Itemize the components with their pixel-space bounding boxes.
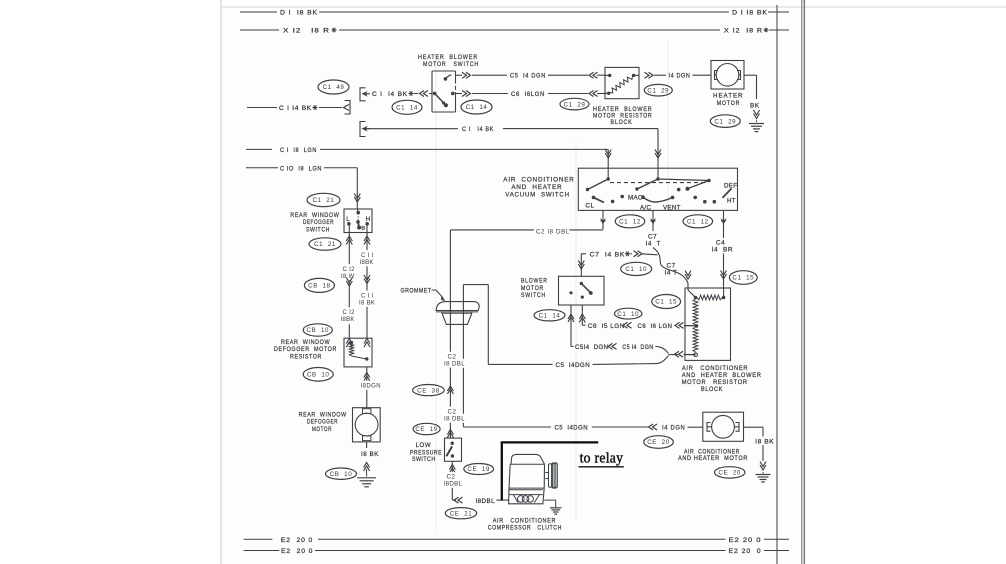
svg-text:C5 I4 DGN: C5 I4 DGN xyxy=(622,344,653,351)
svg-text:C6 I6LGN: C6 I6LGN xyxy=(511,91,545,98)
svg-text:I4 DGN: I4 DGN xyxy=(662,425,685,432)
svg-text:I8DBL: I8DBL xyxy=(444,481,463,488)
svg-text:I4 T: I4 T xyxy=(646,241,661,248)
svg-text:VACUUM SWITCH: VACUUM SWITCH xyxy=(505,192,570,199)
svg-text:C1 12: C1 12 xyxy=(687,219,709,226)
svg-text:DEFOGGER: DEFOGGER xyxy=(303,219,334,226)
svg-text:I8 BK: I8 BK xyxy=(361,451,379,458)
svg-text:E2 20 0: E2 20 0 xyxy=(281,548,313,555)
svg-text:I4 DGN: I4 DGN xyxy=(669,73,691,80)
svg-text:I8BK: I8BK xyxy=(360,260,374,266)
svg-text:SWITCH: SWITCH xyxy=(412,456,436,463)
svg-text:C5 I4 DGN: C5 I4 DGN xyxy=(510,73,546,80)
svg-text:C I I4 BK: C I I4 BK xyxy=(462,126,494,133)
svg-text:C7: C7 xyxy=(648,234,657,241)
svg-text:C1 29: C1 29 xyxy=(564,101,586,108)
svg-text:MOTOR: MOTOR xyxy=(312,426,332,433)
svg-text:C5 I4DGN: C5 I4DGN xyxy=(555,425,589,432)
svg-text:I8BK: I8BK xyxy=(341,317,355,323)
svg-text:I8DGN: I8DGN xyxy=(361,383,382,390)
svg-text:C I I4 BK: C I I4 BK xyxy=(279,105,312,112)
svg-text:CE 20: CE 20 xyxy=(718,470,741,477)
svg-text:AIR CONDITIONER: AIR CONDITIONER xyxy=(493,517,556,524)
svg-text:REAR WINDOW: REAR WINDOW xyxy=(299,412,347,419)
svg-text:C6 I5 LGN: C6 I5 LGN xyxy=(588,323,625,330)
svg-text:H: H xyxy=(366,216,370,223)
svg-text:MOTOR: MOTOR xyxy=(717,100,741,107)
svg-text:CL: CL xyxy=(586,203,595,210)
svg-text:X I2 I8 R: X I2 I8 R xyxy=(724,28,763,35)
svg-text:SWITCH: SWITCH xyxy=(306,226,330,233)
svg-text:VENT: VENT xyxy=(663,205,681,212)
svg-text:CE 19: CE 19 xyxy=(415,426,438,433)
svg-text:L: L xyxy=(346,216,350,223)
svg-text:A/C: A/C xyxy=(640,205,651,212)
svg-text:REAR WINDOW: REAR WINDOW xyxy=(290,212,339,219)
svg-text:C1 29: C1 29 xyxy=(714,118,736,125)
svg-text:E2 20 0: E2 20 0 xyxy=(729,548,762,555)
svg-text:I8 DBL: I8 DBL xyxy=(444,361,465,368)
svg-text:C2: C2 xyxy=(448,354,457,361)
svg-text:C1 14: C1 14 xyxy=(539,313,561,320)
svg-text:AIR CONDITIONER: AIR CONDITIONER xyxy=(503,177,574,184)
svg-text:MOTOR RESISTOR: MOTOR RESISTOR xyxy=(682,379,748,386)
svg-text:C I2: C I2 xyxy=(343,310,356,316)
svg-text:BK: BK xyxy=(750,103,760,110)
svg-text:HT: HT xyxy=(727,198,736,205)
svg-text:BLOWER: BLOWER xyxy=(521,278,548,285)
svg-text:LOW: LOW xyxy=(416,442,432,449)
svg-text:CE 21: CE 21 xyxy=(450,510,473,517)
svg-text:C1 15: C1 15 xyxy=(655,299,677,306)
svg-text:C1 21: C1 21 xyxy=(314,241,336,248)
svg-text:C I I8 LGN: C I I8 LGN xyxy=(280,147,317,154)
svg-text:SWITCH: SWITCH xyxy=(521,292,546,299)
svg-text:X I2 I8 R: X I2 I8 R xyxy=(283,28,330,35)
svg-text:CB 10: CB 10 xyxy=(307,327,330,334)
svg-text:AND HEATER: AND HEATER xyxy=(511,184,562,191)
svg-text:C IO I8 LGN: C IO I8 LGN xyxy=(280,165,322,172)
svg-text:C2: C2 xyxy=(447,474,456,481)
svg-text:CB 10: CB 10 xyxy=(307,372,330,379)
svg-text:BLOCK: BLOCK xyxy=(701,386,723,393)
svg-text:C I I: C I I xyxy=(361,294,374,300)
svg-text:C4: C4 xyxy=(716,240,725,247)
svg-text:GROMMET: GROMMET xyxy=(401,288,432,295)
svg-text:MAC: MAC xyxy=(628,195,643,202)
svg-text:COMPRESSOR CLUTCH: COMPRESSOR CLUTCH xyxy=(488,525,562,532)
svg-text:HEATER BLOWER: HEATER BLOWER xyxy=(418,54,478,61)
svg-text:CB 18: CB 18 xyxy=(308,283,331,290)
svg-text:CB 10: CB 10 xyxy=(330,471,353,478)
svg-text:C1 14: C1 14 xyxy=(466,104,488,111)
svg-text:E2 20 0: E2 20 0 xyxy=(729,537,762,544)
svg-text:C5 I4DGN: C5 I4DGN xyxy=(556,362,591,369)
svg-text:C1 12: C1 12 xyxy=(619,219,641,226)
svg-text:I4 BR: I4 BR xyxy=(712,247,734,254)
svg-text:CE 38: CE 38 xyxy=(417,387,440,394)
svg-text:C1 29: C1 29 xyxy=(647,87,669,94)
svg-text:C5I4 DGN: C5I4 DGN xyxy=(575,344,609,351)
svg-text:C I2: C I2 xyxy=(343,267,356,273)
svg-text:C I I: C I I xyxy=(361,253,374,259)
svg-text:DEFOGGER MOTOR: DEFOGGER MOTOR xyxy=(274,346,337,353)
svg-text:REAR WINDOW: REAR WINDOW xyxy=(281,339,330,346)
svg-text:C1 49: C1 49 xyxy=(323,84,345,91)
svg-text:C1 21: C1 21 xyxy=(313,197,335,204)
svg-text:RESISTOR: RESISTOR xyxy=(290,353,322,360)
svg-text:DEFOGGER: DEFOGGER xyxy=(307,419,338,426)
svg-text:C1 10: C1 10 xyxy=(625,266,647,273)
svg-text:C I I4 BK: C I I4 BK xyxy=(372,91,408,98)
svg-text:I8 BK: I8 BK xyxy=(755,438,774,445)
svg-text:C1 15: C1 15 xyxy=(732,275,754,282)
svg-text:C1 10: C1 10 xyxy=(617,311,639,318)
svg-text:CE 19: CE 19 xyxy=(467,466,490,473)
svg-text:AND HEATER BLOWER: AND HEATER BLOWER xyxy=(682,372,762,379)
svg-text:I8 BK: I8 BK xyxy=(359,300,375,306)
svg-text:C7 I4 BK: C7 I4 BK xyxy=(590,251,626,258)
svg-text:B: B xyxy=(361,226,365,232)
svg-text:C7: C7 xyxy=(667,263,676,270)
svg-text:I8DBL: I8DBL xyxy=(476,498,496,505)
svg-text:AIR CONDITIONER: AIR CONDITIONER xyxy=(682,365,748,372)
svg-text:C2 I8 DBL: C2 I8 DBL xyxy=(536,229,570,236)
svg-text:C1 14: C1 14 xyxy=(396,105,418,112)
svg-text:AND HEATER MOTOR: AND HEATER MOTOR xyxy=(678,455,748,462)
svg-text:BLOCK: BLOCK xyxy=(611,119,633,126)
svg-text:E2 20 0: E2 20 0 xyxy=(281,537,313,544)
svg-text:D I I8 BK: D I I8 BK xyxy=(732,10,768,17)
svg-text:to relay: to relay xyxy=(580,451,624,467)
svg-text:C2: C2 xyxy=(448,409,457,416)
svg-text:D I I8 BK: D I I8 BK xyxy=(280,10,318,17)
svg-text:I8 DBL: I8 DBL xyxy=(444,416,465,423)
svg-text:CE 20: CE 20 xyxy=(647,439,670,446)
svg-text:MOTOR: MOTOR xyxy=(521,285,544,292)
svg-text:MOTOR SWITCH: MOTOR SWITCH xyxy=(423,61,479,68)
svg-text:HEATER: HEATER xyxy=(713,93,744,100)
svg-text:C6 I6 LGN: C6 I6 LGN xyxy=(638,323,673,330)
